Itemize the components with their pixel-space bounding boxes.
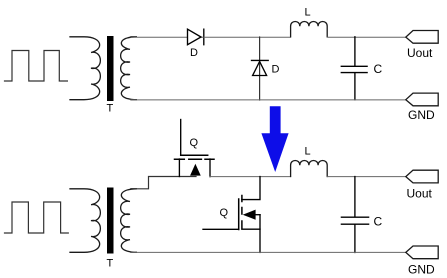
wire: secondary top to diode (top rail left) [131, 36, 204, 38]
MOSFET Q source lead [178, 159, 180, 177]
square wave input (bottom circuit) [5, 202, 69, 233]
connector Uout (bottom) [406, 170, 438, 183]
svg-text:T: T [107, 102, 114, 114]
wire: diode to inductor riser (top rail) [204, 36, 291, 38]
wire: secondary top step up to MOSFET source (bottom) [131, 177, 196, 189]
transformer T primary winding (top) [70, 37, 100, 100]
square wave input (top circuit) [5, 51, 68, 82]
freewheeling diode D vertical wire (top) [259, 37, 261, 100]
MOSFET Q (series, top of bottom circuit) gate lead [180, 120, 182, 156]
transformer T secondary winding (top) [121, 37, 137, 100]
svg-text:T: T [107, 258, 114, 270]
top rail (bottom circuit) [210, 176, 291, 178]
transformer T secondary winding (bottom) [121, 189, 137, 253]
svg-text:GND: GND [408, 262, 435, 276]
diode D (series rectifier, top) [188, 29, 204, 45]
MOSFET Q body arrow [191, 165, 201, 176]
svg-text:Uout: Uout [407, 46, 433, 60]
transformer T core (bottom) [107, 188, 114, 254]
MOSFET Q2 channel segments [241, 196, 243, 228]
svg-text:D: D [190, 47, 198, 59]
blue transition arrow [261, 106, 288, 172]
svg-text:C: C [374, 62, 383, 76]
svg-text:L: L [305, 7, 311, 19]
MOSFET Q2 body arrow [254, 214, 260, 216]
freewheeling diode D symbol (top) [252, 60, 269, 75]
inductor L (bottom) [291, 160, 328, 176]
connector Uout (top) [406, 31, 438, 44]
connector GND (top) [406, 93, 438, 106]
MOSFET Q2 source/body vertical to ground rail [259, 215, 261, 253]
MOSFET Q2 source lead [242, 228, 260, 230]
MOSFET Q gate bar [181, 154, 208, 156]
capacitor C branch (bottom) [341, 177, 368, 253]
inductor L (top) [291, 21, 328, 36]
MOSFET Q (freewheeling, bottom circuit) drain connection [242, 177, 260, 200]
svg-text:GND: GND [408, 108, 435, 122]
MOSFET Q channel segments [175, 158, 215, 160]
wire: inductor to output (bottom circuit top rail right) [327, 176, 406, 178]
wire: inductor to output (top rail right) [327, 36, 406, 38]
MOSFET Q drain lead [209, 159, 211, 177]
svg-text:L: L [305, 146, 311, 158]
svg-text:Q: Q [220, 207, 229, 219]
ground rail (bottom circuit) [131, 251, 406, 253]
svg-text:D: D [272, 64, 280, 76]
svg-text:C: C [374, 215, 383, 229]
MOSFET Q2 gate lead [203, 228, 239, 230]
bottom rail (top circuit) [131, 99, 406, 101]
capacitor C branch (top) [341, 37, 367, 100]
connector GND (bottom) [406, 246, 438, 259]
svg-text:Q: Q [190, 137, 199, 149]
MOSFET Q2 gate bar [238, 199, 240, 230]
svg-text:Uout: Uout [407, 187, 433, 201]
transformer T primary winding (bottom) [70, 189, 100, 253]
transformer T core (top) [107, 36, 114, 101]
